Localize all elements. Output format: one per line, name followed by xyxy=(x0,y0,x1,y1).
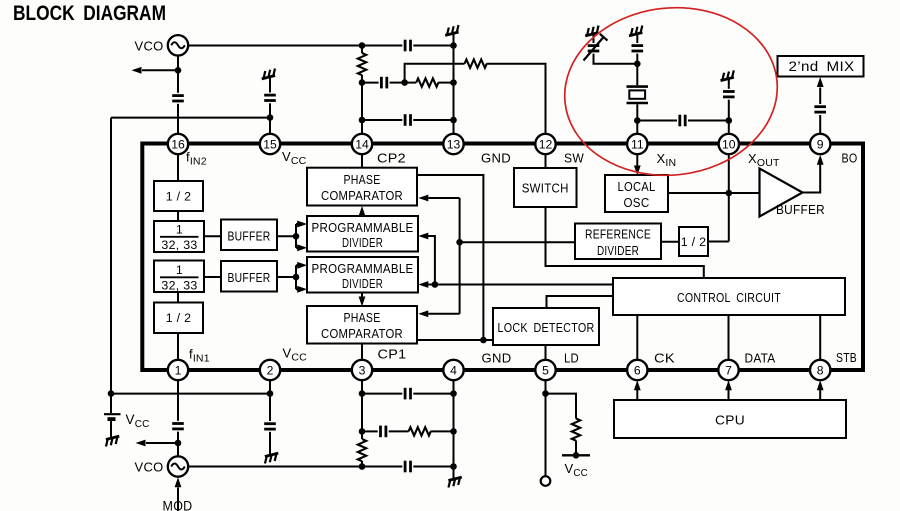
svg-text:SW: SW xyxy=(564,151,584,166)
capacitor C11 (pin-1 column) xyxy=(172,424,184,429)
svg-text:CPU: CPU xyxy=(715,413,745,428)
resistor R3 (SW line) xyxy=(465,60,487,68)
svg-text:COMPARATOR: COMPARATOR xyxy=(321,327,403,341)
svg-text:1: 1 xyxy=(176,263,183,277)
wire C7 to X_OUT node xyxy=(688,120,729,122)
wire pin 12 to SWITCH xyxy=(545,154,547,168)
pin 6 xyxy=(627,360,647,380)
pin 9 xyxy=(810,134,830,154)
block SWITCH xyxy=(514,168,577,207)
wire pin 16 to divider U9 xyxy=(177,154,179,181)
arrowhead into U3 xyxy=(418,233,428,240)
block PHASE COMPARATOR U5 xyxy=(307,306,417,344)
pin 1 xyxy=(168,360,188,380)
svg-text:VCC: VCC xyxy=(283,346,308,364)
junction R4 / VCC bar xyxy=(573,452,580,459)
block BUFFER U11 xyxy=(221,220,277,251)
wire lower cap row left segment xyxy=(362,119,402,121)
svg-text:STB: STB xyxy=(836,350,857,365)
block LOCK DETECTOR xyxy=(493,308,599,345)
wire X_IN to series capacitor C7 xyxy=(637,120,677,122)
svg-text:CK: CK xyxy=(654,351,675,366)
trimmer capacitor CT1 plates xyxy=(588,46,600,51)
block prescaler 1/32,33 U10 xyxy=(154,221,204,252)
wire CP2 filter row left segment xyxy=(362,82,379,84)
wire arrow tap going left xyxy=(142,69,178,71)
svg-text:1: 1 xyxy=(176,223,183,237)
wire SWITCH to CONTROL CIRCUIT xyxy=(546,207,704,278)
junction arrow tap on pin-1 column xyxy=(175,440,182,447)
ground G2 above pin-15 column xyxy=(260,69,277,84)
wire G4 to C6 xyxy=(636,41,638,43)
resistor R4 (LD pull-up) xyxy=(572,419,580,441)
svg-text:32, 33: 32, 33 xyxy=(161,238,197,252)
svg-text:CONTROL CIRCUIT: CONTROL CIRCUIT xyxy=(677,291,781,305)
svg-text:COMPARATOR: COMPARATOR xyxy=(321,189,403,203)
junction lock detector input xyxy=(480,337,487,344)
svg-text:9: 9 xyxy=(817,138,824,152)
junction CP2 filter mid node xyxy=(401,79,408,86)
wire to phase comparator U5 input xyxy=(428,313,459,315)
wire G5 to C8 xyxy=(728,86,730,89)
ground G1 above pin-13 column xyxy=(444,25,461,40)
wire CONTROL to pin 7 DATA xyxy=(728,315,730,360)
block LOCAL OSC xyxy=(605,175,668,212)
wire arrow tap going left (VCO2) xyxy=(146,442,178,444)
pin 7 xyxy=(718,360,738,380)
wire R4 to VCC bar xyxy=(575,441,577,456)
block PROGRAMMABLE DIVIDER U3 xyxy=(307,216,418,252)
wire LOCAL OSC output to buffer amp xyxy=(668,192,760,194)
junction VCO2 line / pin-4 column xyxy=(450,463,457,470)
ground G6 (pin-4 column) xyxy=(447,472,464,487)
junction X_IN node xyxy=(634,117,641,124)
junction VCO2 line / pin-3 column xyxy=(359,463,366,470)
wire CPU to pin 7 xyxy=(728,390,730,400)
arrowhead into U2 xyxy=(418,195,428,202)
wire C6 down to crystal node xyxy=(636,54,638,64)
wire crystal X1 to pin 11 xyxy=(636,104,638,133)
wire U5 to pin 3 CP1 xyxy=(361,344,363,360)
junction pin-4 column row2 xyxy=(450,428,457,435)
junction VCO line / pin-13 ground column xyxy=(450,42,457,49)
block REFERENCE DIVIDER xyxy=(575,224,661,260)
pin 13 xyxy=(443,134,463,154)
wire pin 9 up to coupling capacitor C9 xyxy=(819,115,821,134)
svg-text:LD: LD xyxy=(564,351,579,366)
wire CP1 filter row1 xyxy=(362,393,402,395)
capacitor C4 (CP2 filter) xyxy=(381,77,386,89)
svg-text:3: 3 xyxy=(359,364,366,378)
ground G5 above capacitor C8 xyxy=(719,70,736,85)
VCO oscillator symbol VCO1 xyxy=(168,35,188,55)
capacitor C9 (BO output) xyxy=(814,107,826,112)
wire R6 to pin-4 column xyxy=(431,430,454,432)
VCC supply bar (LD pull-up) xyxy=(562,454,590,456)
arrowhead into U5 xyxy=(418,310,428,317)
wire G3 to trimmer xyxy=(593,41,595,43)
svg-text:VCC: VCC xyxy=(126,412,150,430)
svg-text:6: 6 xyxy=(634,364,641,378)
junction pin-13 column / CP2 filter row xyxy=(450,79,457,86)
wire MOD input to VCO2 xyxy=(177,488,179,511)
pin 2 xyxy=(260,360,280,380)
svg-text:PHASE: PHASE xyxy=(344,311,381,325)
wire C13 to pin-4 column xyxy=(413,393,453,395)
svg-text:14: 14 xyxy=(355,138,369,152)
junction LD pull-up tap xyxy=(542,390,549,397)
arrowhead into LOCAL OSC xyxy=(634,166,641,176)
wire REFERENCE DIVIDER to 1/2 divider U8 xyxy=(661,241,679,243)
junction CP1 filter row2 xyxy=(359,428,366,435)
wire U4 to U5 xyxy=(361,293,363,298)
battery B1 VCC xyxy=(104,414,121,419)
wire C5 to pin-13 column xyxy=(413,119,453,121)
wire C11 to VCO2 xyxy=(177,432,179,457)
wire CPU to pin 6 xyxy=(636,390,638,400)
svg-text:2: 2 xyxy=(267,364,274,378)
arrowhead CPU to pin 6 xyxy=(634,380,641,390)
svg-text:12: 12 xyxy=(539,138,553,152)
red annotation ellipse around crystal circuit xyxy=(556,0,785,186)
junction X_OUT / buffer drive line xyxy=(726,190,733,197)
block CPU xyxy=(614,400,846,438)
svg-text:LOCAL: LOCAL xyxy=(618,180,656,194)
wire R1 to pin 14 xyxy=(361,75,363,134)
capacitor C14 (CP1 row2) xyxy=(381,426,386,438)
wire C10 to ground G7 xyxy=(269,432,271,448)
arrowhead bracket top U3 xyxy=(297,221,307,228)
wire VCO1 bottom to pin 16 xyxy=(177,56,179,93)
ground G7 (pin-2) xyxy=(263,448,280,463)
block 1/2 divider U9 xyxy=(154,181,203,211)
wire CP1 filter row2 left xyxy=(362,430,378,432)
ground G8 (battery) xyxy=(104,431,121,446)
wire pin-14 column top segment xyxy=(361,46,363,54)
VCO oscillator symbol VCO2 xyxy=(168,456,188,476)
wire C3 to pin 15 xyxy=(269,103,271,133)
svg-text:VCC: VCC xyxy=(565,461,588,479)
svg-text:PROGRAMMABLE: PROGRAMMABLE xyxy=(312,262,414,276)
junction arrow tap on pin-16 column xyxy=(175,67,182,74)
capacitor C2 (pin-16 column) xyxy=(172,96,184,101)
capacitor C8 (X_OUT column) xyxy=(723,92,735,97)
wire CONTROL to pin 8 STB xyxy=(819,315,821,360)
wire C2 to pin 16 xyxy=(177,104,179,134)
block 1/2 divider U8 xyxy=(679,227,708,256)
wire to phase comparator U2 input xyxy=(428,197,459,199)
svg-text:CP2: CP2 xyxy=(377,151,406,166)
svg-text:DATA: DATA xyxy=(745,351,776,366)
wire reference line to phase comparators xyxy=(460,241,575,243)
junction X_OUT node xyxy=(726,117,733,124)
wire battery to ground G8 xyxy=(110,421,112,431)
svg-text:4: 4 xyxy=(450,364,457,378)
svg-text:OSC: OSC xyxy=(624,196,650,210)
svg-text:BLOCK DIAGRAM: BLOCK DIAGRAM xyxy=(13,2,166,25)
svg-text:SWITCH: SWITCH xyxy=(522,182,569,196)
svg-text:15: 15 xyxy=(263,138,277,152)
wire crystal node to crystal X1 xyxy=(636,64,638,85)
wire CPU to pin 8 xyxy=(819,390,821,400)
pin 15 xyxy=(260,134,280,154)
capacitor C1 (series, VCO line) xyxy=(405,40,410,52)
arrowhead bracket top U4 xyxy=(297,262,307,269)
arrowhead into 2'nd MIX xyxy=(817,77,824,87)
capacitor C5 (lower cap row) xyxy=(405,114,410,126)
junction VCC rail / battery xyxy=(108,390,115,397)
svg-text:VCO: VCO xyxy=(135,38,164,53)
svg-text:13: 13 xyxy=(447,138,461,152)
wire pin 1 to divider U12 xyxy=(177,333,179,360)
resistor R6 (CP1 row2) xyxy=(409,427,431,435)
arrowhead bracket bottom U3 xyxy=(297,244,307,251)
trimmer T-bar xyxy=(600,34,608,41)
svg-text:REFERENCE: REFERENCE xyxy=(585,228,651,242)
capacitor C10 (pin-2 column) xyxy=(264,424,276,429)
wire cap to ground column xyxy=(413,45,453,47)
wire pin 4 GND column xyxy=(453,380,455,466)
wire U10 to buffer U11 xyxy=(204,235,221,237)
pin 12 xyxy=(535,134,555,154)
svg-text:1 / 2: 1 / 2 xyxy=(681,235,707,249)
capacitor C3 (pin-15 column) xyxy=(264,95,276,100)
wire VCO2 output xyxy=(188,466,402,468)
resistor R5 (pin-3 column) xyxy=(358,439,366,461)
junction R1 bottom / CP2 filter row xyxy=(359,79,366,86)
svg-text:LOCK DETECTOR: LOCK DETECTOR xyxy=(498,321,595,335)
bracket into U3 xyxy=(295,224,297,248)
wire G2 to capacitor C3 xyxy=(269,84,271,93)
junction buffer U11 output xyxy=(293,233,300,240)
arrowhead CPU to pin 8 xyxy=(817,380,824,390)
svg-text:fIN2: fIN2 xyxy=(186,150,207,168)
junction reference distribution xyxy=(456,239,463,246)
svg-text:BUFFER: BUFFER xyxy=(776,203,825,217)
svg-text:fIN1: fIN1 xyxy=(189,347,210,365)
pin 11 xyxy=(627,134,647,154)
svg-text:PROGRAMMABLE: PROGRAMMABLE xyxy=(312,221,414,235)
block PROGRAMMABLE DIVIDER U4 xyxy=(307,257,418,293)
junction pin-15 column / feedback line xyxy=(267,114,274,121)
block 1/2 divider U12 xyxy=(154,303,203,334)
arrowhead pointing left (VCO1 tap) xyxy=(132,67,142,74)
wire R5 to VCO2 line xyxy=(361,461,363,467)
bracket into U4 xyxy=(295,265,297,289)
wire pin 1 column xyxy=(177,380,179,421)
svg-text:16: 16 xyxy=(171,138,185,152)
arrowhead MOD into VCO2 xyxy=(175,477,182,487)
wire to ground G6 xyxy=(453,467,455,473)
svg-text:VCO: VCO xyxy=(135,460,164,475)
block BUFFER U14 xyxy=(221,261,277,292)
wire U13 to buffer U14 xyxy=(204,276,221,278)
wire rail to battery xyxy=(110,394,112,413)
pin 14 xyxy=(352,134,372,154)
junction buffer U14 output xyxy=(293,274,300,281)
ground G4 above load capacitor C6 xyxy=(627,26,644,41)
pin 16 xyxy=(168,134,188,154)
wire U14 to programmable divider U4 xyxy=(277,276,296,278)
wire phase comparator U5 output to lock detector xyxy=(417,339,493,341)
svg-text:10: 10 xyxy=(722,138,736,152)
junction VCC rail / pin-2 column xyxy=(267,390,274,397)
wire mid node to resistor R2 xyxy=(405,82,417,84)
wire CONTROL to pin 6 CK xyxy=(636,315,638,360)
feedback wire from pin-15 column to far-left rail xyxy=(111,117,270,119)
wire LOCK DETECTOR to CONTROL CIRCUIT xyxy=(547,296,614,308)
arrowhead into pin 9 xyxy=(817,155,824,165)
svg-text:DIVIDER: DIVIDER xyxy=(597,244,639,258)
capacitor C6 (crystal top node) xyxy=(632,46,644,51)
wire phase comparator U2 output to lock detector xyxy=(417,175,483,340)
wire U12 to prescaler U13 xyxy=(177,292,179,303)
arrowhead CPU to pin 7 xyxy=(725,380,732,390)
wire pin 2 column xyxy=(269,380,271,421)
wire pin 10 down to local osc output line xyxy=(728,154,730,241)
wire C8 to pin 10 xyxy=(728,100,730,134)
wire mid node up and across to SW pin 12 xyxy=(405,64,465,83)
svg-text:1: 1 xyxy=(175,364,182,378)
svg-text:BUFFER: BUFFER xyxy=(228,271,271,285)
wire pin 5 LD down to test point xyxy=(545,380,547,475)
wire R3 to pin 12 drop xyxy=(487,64,546,134)
svg-text:XOUT: XOUT xyxy=(748,151,780,169)
pin 3 xyxy=(352,360,372,380)
svg-text:GND: GND xyxy=(482,351,512,366)
svg-text:8: 8 xyxy=(817,364,824,378)
wire buffer output to pin 9 xyxy=(803,165,821,193)
far-left vertical feedback rail xyxy=(110,118,112,394)
junction divider program line xyxy=(432,281,439,288)
svg-text:BO: BO xyxy=(842,151,858,166)
junction pin-14 column / lower cap row xyxy=(359,117,366,124)
pin 10 xyxy=(719,134,739,154)
wire C9 to 2'nd MIX xyxy=(819,88,821,105)
svg-text:7: 7 xyxy=(725,364,732,378)
ground G3 above trimmer xyxy=(584,26,601,41)
pin 8 xyxy=(810,360,830,380)
wire U11 to programmable divider U3 xyxy=(277,235,296,237)
wire trimmer to crystal node xyxy=(594,54,638,64)
block PHASE COMPARATOR U2 xyxy=(307,168,417,206)
svg-text:1 / 2: 1 / 2 xyxy=(166,311,192,325)
arrowhead pointing left (VCO2 tap) xyxy=(136,440,146,447)
wire LOCK DETECTOR to pin 5 xyxy=(545,345,547,360)
reference distribution vertical xyxy=(459,198,461,314)
svg-text:MOD: MOD xyxy=(163,499,193,511)
program line riser to U3 xyxy=(428,236,435,285)
junction pin-4 column row1 xyxy=(450,390,457,397)
wire pin-13 ground column down to pin 13 xyxy=(453,41,455,134)
arrowhead U4 into U5 xyxy=(359,297,366,307)
open terminal circle (LD) xyxy=(541,476,551,486)
junction pin-13 column / lower cap row xyxy=(450,117,457,124)
junction VCO line / pin-14 column xyxy=(359,42,366,49)
wire U3 to U2 xyxy=(361,215,363,217)
svg-text:PHASE: PHASE xyxy=(344,173,381,187)
op-amp buffer U7 triangle xyxy=(760,169,803,217)
wire C12 to ground column xyxy=(413,466,453,468)
svg-text:BUFFER: BUFFER xyxy=(228,229,271,243)
svg-text:XIN: XIN xyxy=(657,151,677,169)
svg-text:GND: GND xyxy=(481,151,511,166)
svg-text:2’nd MIX: 2’nd MIX xyxy=(789,59,855,74)
svg-text:VCC: VCC xyxy=(282,149,307,167)
block 2'nd MIX xyxy=(778,56,864,77)
crystal X1 xyxy=(627,87,649,103)
svg-text:DIVIDER: DIVIDER xyxy=(342,277,383,291)
wire pin 3 column xyxy=(361,380,363,439)
wire C4 to mid junction xyxy=(390,82,405,84)
resistor R2 (CP2 filter) xyxy=(416,78,438,86)
block CONTROL CIRCUIT xyxy=(613,278,845,315)
wire pin 14 to U2 xyxy=(361,154,363,167)
wire pin 11 to LOCAL OSC xyxy=(636,154,638,166)
IC package outline xyxy=(142,144,863,371)
svg-text:1 / 2: 1 / 2 xyxy=(166,190,192,204)
trimmer adjustment diagonal xyxy=(584,37,605,61)
capacitor C12 (VCO2 line) xyxy=(405,461,410,473)
svg-text:CP1: CP1 xyxy=(378,347,407,362)
arrowhead into U4 xyxy=(418,281,428,288)
svg-text:32, 33: 32, 33 xyxy=(161,279,197,293)
arrowhead bracket bottom U4 xyxy=(297,286,307,293)
svg-text:5: 5 xyxy=(542,364,549,378)
wire C14 to resistor R6 xyxy=(389,430,409,432)
wire R2 to pin-13 column xyxy=(438,82,453,84)
svg-text:11: 11 xyxy=(631,138,644,152)
junction CP1 filter row1 xyxy=(359,390,366,397)
junction crystal top node xyxy=(634,61,641,68)
pin 5 xyxy=(535,360,555,380)
capacitor C7 (between X_IN and X_OUT) xyxy=(680,115,685,127)
wire junction to divider 1/2 U8 xyxy=(708,241,729,243)
block prescaler 1/32,33 U13 xyxy=(154,261,204,293)
capacitor C13 (CP1 row1) xyxy=(405,388,410,400)
wire VCO1 output to pin-14/pin-13 columns xyxy=(188,45,402,47)
wire CONTROL CIRCUIT to programmable dividers xyxy=(428,284,613,286)
arrowhead U3 into U2 xyxy=(359,206,366,216)
pin 4 xyxy=(443,360,463,380)
wire U9 to prescaler U10 xyxy=(177,211,179,221)
VCC rail wire (left) xyxy=(111,393,270,395)
wire LD tap to pull-up resistor R4 xyxy=(546,394,577,419)
resistor R1 (pin-14 column) xyxy=(358,53,366,75)
svg-text:DIVIDER: DIVIDER xyxy=(342,236,383,250)
